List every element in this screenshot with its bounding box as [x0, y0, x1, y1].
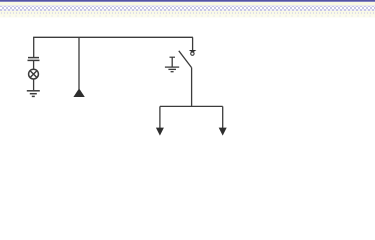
capacitor plate bottom: [28, 59, 40, 61]
switch fixed contact arrowhead: [189, 50, 197, 53]
ground GND2 lines: [165, 67, 179, 72]
arrow terminal left: [156, 128, 164, 136]
wire right arrow stem: [222, 106, 224, 128]
capacitor plate top: [28, 57, 39, 59]
ground GND2 bar: [170, 56, 176, 58]
lamp cross: [30, 71, 37, 78]
ground GND2 stub: [171, 57, 173, 66]
wire middle branch down: [78, 37, 80, 89]
switch contact circle: [191, 52, 194, 55]
wire lamp to ground: [33, 79, 35, 90]
wire right branch down: [192, 37, 194, 50]
wire left arrow stem: [159, 106, 161, 128]
wire switch to bottom bus: [191, 68, 193, 107]
wire top bus: [33, 36, 193, 38]
wire bottom bus: [160, 105, 223, 107]
wire capacitor to lamp: [33, 61, 35, 69]
lamp circle: [29, 69, 39, 79]
arrow terminal right: [219, 128, 227, 136]
switch blade: [179, 51, 192, 68]
wire left branch down: [33, 37, 35, 57]
chassis ground triangle: [73, 88, 84, 97]
ground GND1: [27, 91, 40, 97]
